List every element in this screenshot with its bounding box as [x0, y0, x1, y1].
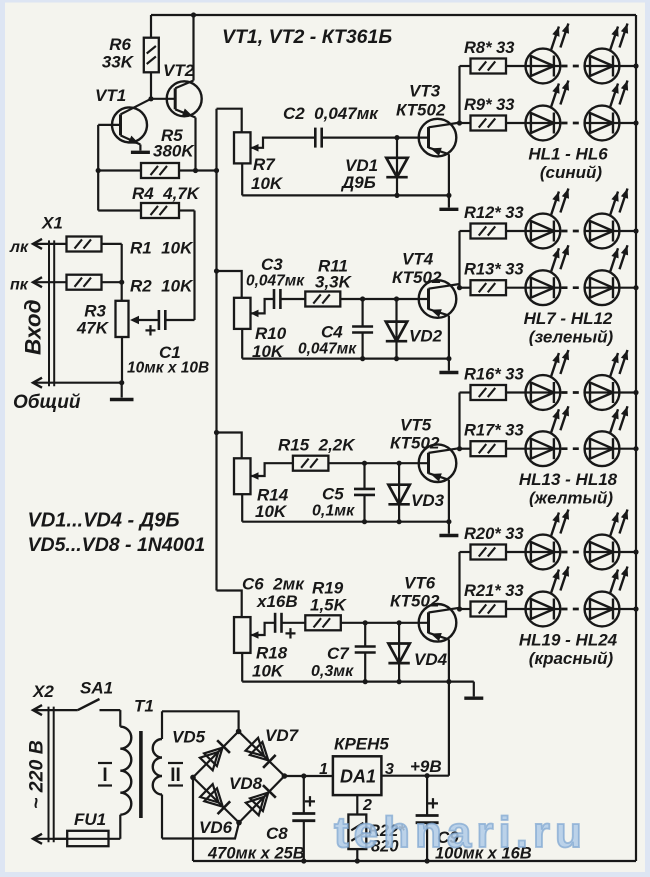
resistor R13 [460, 287, 471, 289]
R18 wiper [251, 623, 276, 635]
node X2 top arrow [33, 705, 42, 715]
transistor VT6 [419, 604, 457, 642]
svg-text:VT3: VT3 [409, 82, 441, 101]
transformer T1 secondary [161, 711, 163, 739]
svg-text:VD4: VD4 [414, 650, 448, 669]
wire bridge frame [193, 731, 284, 822]
diode VD5 [200, 752, 218, 770]
svg-text:R13* 33: R13* 33 [464, 261, 524, 279]
R3 wiper arrow [133, 319, 159, 321]
svg-text:3,3K: 3,3K [315, 273, 353, 292]
svg-text:R6: R6 [109, 35, 131, 54]
wire LED group 3 left vertical [458, 393, 460, 449]
ground ch2 [448, 359, 450, 371]
wire LED row to right rail [619, 287, 636, 289]
wire ch1 takeoff from bus [217, 109, 242, 133]
transistor VT3 [419, 119, 457, 157]
switch SA1 [78, 699, 100, 710]
ground ch1 [448, 195, 450, 207]
wire ch2 takeoff from bus [217, 271, 242, 298]
svg-text:VT1: VT1 [95, 86, 126, 105]
node pk input arrow [33, 277, 42, 287]
svg-text:33K: 33K [102, 53, 135, 72]
wire bridge minus to ground rail [192, 777, 194, 861]
svg-text:VT1, VT2 - КТ361Б: VT1, VT2 - КТ361Б [222, 26, 392, 48]
svg-text:(синий): (синий) [540, 163, 603, 182]
resistor R21 [460, 608, 471, 610]
wire R1 down to R3 [121, 244, 123, 301]
wire dashed LED link [562, 230, 586, 233]
node X2 bottom arrow [33, 834, 42, 844]
svg-text:VD3: VD3 [411, 491, 445, 510]
svg-text:R18: R18 [256, 644, 288, 663]
wire LED row to right rail [619, 122, 636, 124]
svg-text:R4 4,7K: R4 4,7K [132, 184, 201, 203]
wire VT2 emitter down to R5 row [194, 118, 196, 171]
svg-text:+: + [304, 791, 316, 813]
capacitor C9 [426, 776, 428, 816]
svg-text:C6 2мк: C6 2мк [242, 575, 305, 594]
R7 wiper [251, 138, 316, 148]
wire dashed LED link [562, 286, 586, 289]
transformer T1 primary [119, 710, 121, 727]
svg-text:FU1: FU1 [74, 810, 106, 829]
wire R19 to VT6 base [341, 622, 429, 624]
resistor R1 [67, 237, 102, 252]
svg-text:SA1: SA1 [80, 679, 113, 698]
svg-text:+9В: +9В [410, 757, 442, 776]
ground VT1 emitter [131, 151, 150, 154]
wire VT6 emitter down [448, 639, 450, 681]
svg-text:0,3мк: 0,3мк [311, 663, 354, 680]
node R6-VT1-VT2 junction [148, 96, 153, 101]
svg-text:R1 10K: R1 10K [130, 239, 194, 258]
resistor R16 [460, 391, 471, 393]
wire signal bus vertical [215, 109, 217, 591]
wire VT1 base vertical [97, 125, 99, 211]
transformer T1 core [139, 731, 143, 818]
wire bottom ground rail [193, 860, 636, 862]
wire dashed LED link [562, 65, 586, 68]
wire LED group 2 left vertical [458, 231, 460, 288]
LED HL0a [526, 49, 561, 84]
wire dashed LED link [562, 391, 586, 394]
LED HL6a [526, 214, 561, 249]
resistor R12 [460, 230, 471, 232]
capacitor C7 [364, 623, 366, 647]
svg-text:КТ502: КТ502 [396, 101, 446, 120]
svg-text:0,047мк: 0,047мк [298, 341, 357, 358]
R14 wiper [251, 463, 293, 476]
wire R15 to VT5 base [328, 462, 428, 464]
svg-text:VD6: VD6 [199, 818, 233, 837]
svg-text:X2: X2 [32, 682, 54, 701]
capacitor C6 [274, 613, 277, 633]
diode VD8 [246, 797, 264, 816]
wire ch4 takeoff from bus [217, 591, 242, 618]
LED HL6b [585, 214, 620, 249]
svg-text:10мк x 10В: 10мк x 10В [127, 360, 209, 377]
svg-text:10K: 10K [252, 662, 285, 681]
transistor VT4 [419, 280, 457, 318]
svg-text:Вход: Вход [21, 299, 46, 355]
svg-text:R12* 33: R12* 33 [464, 204, 524, 222]
wire ch4 bottom [242, 680, 474, 682]
wire LED group 1 left vertical [458, 66, 460, 123]
wire ch2 bottom [242, 358, 449, 360]
svg-text:10K: 10K [251, 174, 284, 193]
wire C2 to VT3 base [322, 137, 429, 139]
svg-text:HL1 - HL6: HL1 - HL6 [528, 145, 608, 164]
resistor R11 [305, 292, 340, 307]
wire ch3 takeoff from bus [217, 433, 242, 459]
wire LED row to right rail [619, 230, 636, 232]
R10 wiper [251, 299, 275, 313]
capacitor C5 [363, 463, 365, 489]
wire VT2 collector to top rail [192, 15, 194, 81]
wire dashed LED link [562, 608, 586, 611]
svg-text:X1: X1 [41, 214, 63, 233]
node bridge corners [236, 729, 242, 735]
svg-text:HL19 - HL24: HL19 - HL24 [519, 631, 618, 650]
svg-text:tehnari.ru: tehnari.ru [334, 808, 587, 857]
wire LED row to right rail [619, 448, 636, 450]
svg-text:HL7 - HL12: HL7 - HL12 [524, 309, 613, 328]
capacitor C8 [303, 776, 305, 814]
fuse FU1 [54, 838, 120, 840]
svg-text:0,1мк: 0,1мк [312, 503, 355, 520]
svg-text:VT2: VT2 [163, 61, 195, 80]
svg-text:HL13 - HL18: HL13 - HL18 [519, 470, 618, 489]
svg-text:лк: лк [9, 239, 29, 256]
LED HL7b [585, 270, 620, 305]
label II secondary winding [168, 762, 183, 764]
potentiometer R18 [234, 617, 251, 653]
svg-text:R2 10K: R2 10K [130, 277, 194, 296]
wire bridge plus to DA1 [284, 775, 333, 777]
ground ch4 [473, 682, 475, 697]
svg-text:C3: C3 [261, 255, 283, 274]
diode VD4 [398, 623, 400, 682]
svg-text:КРЕН5: КРЕН5 [334, 735, 389, 754]
node VD1 top [394, 135, 399, 140]
svg-text:КТ502: КТ502 [392, 268, 442, 287]
LED HL12a [526, 375, 561, 410]
svg-text:(зеленый): (зеленый) [529, 328, 614, 347]
node common input arrow [33, 378, 42, 388]
wire VT1 emitter to ground [139, 145, 141, 151]
wire DA1 pin2 [356, 795, 358, 814]
svg-text:Д9Б: Д9Б [340, 173, 376, 192]
resistor R22 [348, 815, 366, 850]
wire secondary bottom to bridge [162, 823, 239, 839]
svg-text:R20* 33: R20* 33 [464, 525, 524, 543]
svg-text:R10: R10 [255, 324, 287, 343]
svg-text:C8: C8 [266, 824, 288, 843]
diode VD2 [395, 299, 397, 359]
resistor R2 [67, 275, 102, 290]
capacitor C3 [273, 289, 276, 309]
diode VD1 [396, 138, 398, 196]
LED HL13a [526, 431, 561, 466]
resistor R5 [98, 169, 141, 171]
node lk input arrow [33, 239, 42, 249]
LED HL19b [585, 592, 620, 627]
svg-text:КТ502: КТ502 [390, 592, 440, 611]
IC DA1 KREN5 [333, 756, 382, 795]
potentiometer R7 [234, 132, 251, 163]
wire VT3 emitter down [448, 154, 450, 195]
svg-text:DA1: DA1 [340, 767, 376, 787]
ground input common [121, 383, 123, 398]
label I primary winding [98, 762, 112, 764]
capacitor C1 [158, 310, 161, 330]
svg-text:47K: 47K [76, 319, 110, 338]
wire R4 to C1 [193, 211, 195, 321]
svg-text:(желтый): (желтый) [529, 489, 613, 508]
svg-text:VT5: VT5 [400, 416, 432, 435]
connector X1 double lines [48, 240, 50, 386]
wire LED row to right rail [619, 391, 636, 393]
wire LED row to right rail [619, 608, 636, 610]
ground ch3 [448, 522, 450, 534]
wire secondary top to bridge [162, 711, 239, 731]
LED HL7a [526, 270, 561, 305]
svg-text:~ 220 В: ~ 220 В [26, 740, 48, 809]
svg-text:VD7: VD7 [265, 726, 300, 745]
svg-text:C5: C5 [322, 485, 344, 504]
transistor VT2 [167, 81, 202, 116]
svg-text:I: I [102, 765, 107, 786]
wire R11 to VT4 base [340, 298, 428, 300]
svg-text:C4: C4 [321, 323, 343, 342]
svg-text:VT6: VT6 [404, 574, 436, 593]
svg-text:+: + [145, 320, 157, 342]
svg-text:КТ502: КТ502 [390, 434, 440, 453]
LED HL18b [585, 535, 620, 570]
resistor R20 [460, 551, 471, 553]
svg-text:VT4: VT4 [402, 250, 434, 269]
svg-text:x16В: x16В [256, 592, 298, 611]
svg-text:пк: пк [10, 277, 29, 294]
LED HL18a [526, 535, 561, 570]
svg-text:VD2: VD2 [409, 327, 443, 346]
wire dashed LED link [562, 551, 586, 554]
LED HL1a [526, 106, 561, 141]
LED HL19a [526, 592, 561, 627]
svg-text:C2 0,047мк: C2 0,047мк [283, 104, 379, 123]
resistor R8 [460, 65, 471, 67]
transistor VT5 [419, 444, 457, 482]
wire DA1 pin3 +9V [381, 775, 449, 777]
svg-text:R15 2,2K: R15 2,2K [278, 436, 356, 455]
LED HL0b [585, 49, 620, 84]
svg-text:1: 1 [319, 761, 328, 778]
svg-text:+: + [285, 623, 297, 645]
svg-text:VD8: VD8 [229, 774, 263, 793]
resistor R6 [150, 15, 152, 38]
svg-text:(красный): (красный) [529, 649, 614, 668]
svg-text:R7: R7 [253, 155, 276, 174]
resistor R9 [460, 122, 471, 124]
wire LED row to right rail [619, 551, 636, 553]
transistor VT1 [112, 107, 147, 142]
svg-text:470мк x 25В: 470мк x 25В [207, 845, 305, 863]
capacitor C4 [362, 299, 364, 327]
svg-text:1,5K: 1,5K [310, 596, 348, 615]
svg-text:R16* 33: R16* 33 [464, 366, 524, 384]
LED HL13b [585, 431, 620, 466]
svg-text:T1: T1 [134, 697, 154, 716]
wire VT4 emitter down [448, 316, 450, 359]
svg-text:R21* 33: R21* 33 [464, 582, 524, 600]
svg-text:VD5...VD8 - 1N4001: VD5...VD8 - 1N4001 [28, 534, 206, 556]
diode VD6 [200, 784, 218, 802]
wire +9V riser to ch4 [448, 682, 450, 776]
wire dashed LED link [562, 447, 586, 450]
connector X2 double lines [48, 707, 50, 843]
potentiometer R14 [234, 458, 251, 494]
svg-text:R8* 33: R8* 33 [464, 39, 514, 57]
potentiometer R10 [234, 298, 251, 329]
svg-text:0,047мк: 0,047мк [246, 273, 305, 290]
svg-text:380K: 380K [153, 142, 195, 161]
wire ch1 bottom [242, 194, 449, 196]
resistor R19 [305, 615, 341, 630]
potentiometer R3 [116, 301, 129, 337]
wire dashed LED link [562, 122, 586, 125]
wire VT5 emitter down [448, 480, 450, 522]
svg-text:R9* 33: R9* 33 [464, 96, 514, 114]
svg-text:II: II [170, 765, 181, 786]
resistor R4 [98, 209, 141, 211]
svg-text:R17* 33: R17* 33 [464, 422, 524, 440]
wire right rail [635, 15, 637, 861]
resistor R15 [293, 456, 329, 471]
LED HL12b [585, 375, 620, 410]
LED HL1b [585, 106, 620, 141]
svg-text:VD1...VD4 - Д9Б: VD1...VD4 - Д9Б [28, 510, 180, 532]
wire LED row to right rail [619, 65, 636, 67]
svg-text:Общий: Общий [13, 392, 81, 413]
svg-text:10K: 10K [255, 502, 288, 521]
wire ch3 bottom [242, 521, 449, 523]
capacitor C2 [314, 128, 317, 148]
diode VD7 [246, 738, 265, 756]
wire LED group 4 left vertical [458, 552, 460, 609]
diode VD3 [398, 463, 400, 522]
resistor R17 [460, 448, 471, 450]
svg-text:C7: C7 [327, 644, 350, 663]
svg-text:VD5: VD5 [172, 728, 206, 747]
wire top rail [151, 14, 636, 16]
